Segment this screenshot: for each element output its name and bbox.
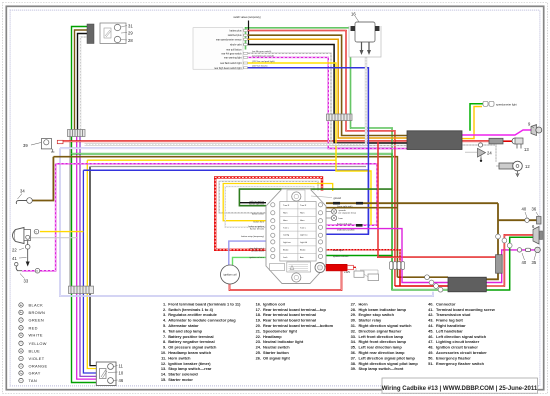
svg-text:Battery negative terminal: Battery negative terminal (168, 339, 215, 344)
svg-text:26.: 26. (256, 355, 261, 360)
svg-text:41: 41 (12, 256, 17, 261)
svg-text:Oil signal light: Oil signal light (263, 355, 291, 360)
svg-text:ORANGE: ORANGE (29, 364, 48, 369)
svg-text:Right rear direction lamp: Right rear direction lamp (359, 350, 406, 355)
svg-text:22.: 22. (256, 334, 261, 339)
svg-text:Tail and stop lamp: Tail and stop lamp (168, 328, 202, 333)
svg-text:Lighting circuit breaker: Lighting circuit breaker (436, 339, 480, 344)
svg-text:Turn L: Turn L (283, 226, 290, 229)
svg-text:TAN: TAN (29, 378, 38, 383)
svg-text:Direction signal flasher: Direction signal flasher (359, 328, 403, 333)
svg-text:Ignition coil: Ignition coil (263, 301, 285, 306)
svg-text:(indicator parallel): (indicator parallel) (337, 229, 355, 232)
svg-text:Alternator stator: Alternator stator (168, 323, 199, 328)
svg-text:Starter solenoid: Starter solenoid (168, 372, 198, 377)
svg-text:10: 10 (119, 371, 124, 376)
svg-text:Stop lamp switch—rear: Stop lamp switch—rear (168, 366, 212, 371)
svg-text:Turn L: Turn L (300, 226, 307, 229)
svg-text:GREEN: GREEN (29, 318, 45, 323)
svg-text:flasher light side: flasher light side (249, 202, 265, 205)
svg-text:switch values (temporary): switch values (temporary) (233, 16, 260, 19)
svg-text:(horn right side): (horn right side) (337, 205, 353, 208)
svg-text:Gy: Gy (20, 373, 23, 375)
svg-text:6.: 6. (163, 328, 166, 333)
svg-text:Starter motor: Starter motor (168, 377, 193, 382)
svg-text:16: 16 (351, 12, 356, 17)
svg-text:Left handlebar: Left handlebar (436, 328, 463, 333)
svg-text:battery plus: battery plus (230, 30, 243, 33)
svg-text:Front terminal board (terminal: Front terminal board (terminals 1 to 11) (168, 301, 241, 306)
svg-text:23.: 23. (256, 339, 261, 344)
svg-text:Right handlebar: Right handlebar (436, 323, 466, 328)
svg-text:(or separate misc): (or separate misc) (339, 212, 357, 215)
svg-text:Turn R: Turn R (283, 204, 290, 207)
svg-text:Accessories circuit breaker: Accessories circuit breaker (436, 350, 487, 355)
svg-text:whole valet: whole valet (230, 44, 242, 47)
svg-text:13: 13 (524, 147, 529, 152)
svg-text:Oil pressure signal switch: Oil pressure signal switch (168, 345, 217, 350)
svg-text:20.: 20. (256, 323, 261, 328)
svg-text:Wiring Cadbike #13 | WWW.DBBP.: Wiring Cadbike #13 | WWW.DBBP.COM | 25-J… (382, 385, 538, 392)
svg-text:40: 40 (522, 207, 527, 212)
svg-text:Rear terminal board terminal—b: Rear terminal board terminal—bottom (263, 323, 334, 328)
svg-text:41.: 41. (428, 307, 433, 312)
svg-text:Rear terminal board terminal: Rear terminal board terminal (263, 318, 316, 323)
svg-text:24.: 24. (256, 345, 261, 350)
svg-text:Config: Config (283, 235, 290, 237)
svg-text:Rear terminal board terminal—t: Rear terminal board terminal—top (263, 307, 327, 312)
svg-text:Battery positive terminal: Battery positive terminal (168, 334, 213, 339)
svg-text:Starter relay: Starter relay (359, 318, 383, 323)
svg-text:14.: 14. (161, 372, 166, 377)
svg-text:rear 4th gear switch: rear 4th gear switch (221, 52, 242, 55)
svg-text:flasher left side: flasher left side (250, 228, 265, 231)
svg-text:ignition coil: ignition coil (224, 273, 237, 277)
svg-text:Stop lamp switch—front: Stop lamp switch—front (359, 366, 404, 371)
svg-text:42.: 42. (428, 312, 433, 317)
svg-text:25.: 25. (256, 350, 261, 355)
svg-text:1.: 1. (163, 301, 166, 306)
svg-text:34.: 34. (351, 339, 356, 344)
svg-text:51.: 51. (428, 361, 433, 366)
svg-text:13.: 13. (161, 366, 166, 371)
svg-text:connect brake: connect brake (251, 250, 265, 253)
svg-text:50.: 50. (428, 355, 433, 360)
svg-text:Switch (terminals 1 to 4): Switch (terminals 1 to 4) (168, 307, 213, 312)
svg-text:horn: horn (339, 217, 344, 220)
svg-text:24: 24 (487, 151, 492, 156)
svg-text:W: W (20, 335, 22, 337)
svg-text:Emergency flasher: Emergency flasher (436, 355, 471, 360)
svg-text:46: 46 (119, 378, 124, 383)
svg-text:Alternator to module connector: Alternator to module connector plug (168, 318, 236, 323)
svg-text:40.: 40. (428, 301, 433, 306)
svg-text:brake light: brake light (333, 249, 343, 252)
svg-text:switched plus: switched plus (228, 34, 243, 37)
svg-text:39.: 39. (351, 366, 356, 371)
svg-text:Frame lug bolt: Frame lug bolt (436, 318, 464, 323)
svg-text:Right front direction lamp: Right front direction lamp (359, 339, 407, 344)
svg-text:36: 36 (532, 207, 537, 212)
svg-text:38.: 38. (351, 361, 356, 366)
svg-text:18.: 18. (256, 312, 261, 317)
svg-text:speedometer light: speedometer light (496, 103, 517, 107)
svg-text:Engine stop switch: Engine stop switch (359, 312, 395, 317)
svg-text:button setup (temporary): button setup (temporary) (241, 235, 264, 238)
svg-text:44.: 44. (428, 323, 433, 328)
svg-text:Left direction signal switch: Left direction signal switch (436, 334, 487, 339)
svg-text:Brake: Brake (283, 249, 289, 252)
svg-text:45.: 45. (428, 328, 433, 333)
svg-text:(no 4th gear switch): (no 4th gear switch) (252, 50, 271, 53)
svg-text:31.: 31. (351, 323, 356, 328)
svg-text:12: 12 (525, 164, 530, 169)
svg-text:BROWN: BROWN (29, 310, 46, 315)
svg-text:rear warning light: rear warning light (224, 56, 242, 59)
svg-text:Terminal board mounting screw: Terminal board mounting screw (436, 307, 496, 312)
svg-text:Neutral indicator light: Neutral indicator light (263, 339, 304, 344)
svg-text:Light sw: Light sw (283, 241, 291, 244)
svg-text:Turn R: Turn R (300, 204, 307, 207)
svg-text:36.: 36. (351, 350, 356, 355)
svg-text:(12V live red park light): (12V live red park light) (252, 60, 275, 63)
svg-text:10.: 10. (161, 350, 166, 355)
svg-text:15.: 15. (161, 377, 166, 382)
svg-text:40: 40 (522, 260, 527, 265)
svg-text:Ignition circuit breaker: Ignition circuit breaker (436, 345, 478, 350)
svg-text:46.: 46. (428, 334, 433, 339)
svg-text:31: 31 (128, 24, 133, 29)
svg-text:47.: 47. (428, 339, 433, 344)
svg-text:35.: 35. (351, 345, 356, 350)
svg-text:ignition coil wire: ignition coil wire (333, 255, 349, 258)
svg-text:YELLOW: YELLOW (29, 341, 47, 346)
svg-text:RED: RED (29, 325, 38, 330)
svg-text:Left front direction lamp: Left front direction lamp (359, 334, 404, 339)
svg-text:Emergency flasher switch: Emergency flasher switch (436, 361, 485, 366)
svg-text:27.: 27. (351, 301, 356, 306)
svg-text:49.: 49. (428, 350, 433, 355)
svg-text:Light Lo: Light Lo (300, 234, 308, 237)
svg-text:17.: 17. (256, 307, 261, 312)
svg-text:Speedometer light: Speedometer light (263, 328, 298, 333)
svg-text:35: 35 (532, 260, 537, 265)
svg-text:Transmission stud: Transmission stud (436, 312, 471, 317)
svg-text:Rear terminal board terminal: Rear terminal board terminal (263, 312, 316, 317)
svg-text:28.: 28. (351, 307, 356, 312)
svg-text:Horn: Horn (359, 301, 369, 306)
svg-text:ignition coil wire: ignition coil wire (249, 256, 265, 259)
svg-text:High beam indicator lamp: High beam indicator lamp (359, 307, 407, 312)
svg-text:29: 29 (128, 31, 133, 36)
svg-text:33.: 33. (351, 334, 356, 339)
svg-text:11.: 11. (161, 355, 166, 360)
svg-text:Neutral switch: Neutral switch (263, 345, 290, 350)
svg-text:11: 11 (119, 364, 124, 369)
svg-text:8.: 8. (163, 339, 166, 344)
svg-text:(12V live beam): (12V live beam) (252, 66, 268, 68)
svg-text:16.: 16. (256, 301, 261, 306)
svg-text:(at oil pressure switch): (at oil pressure switch) (252, 54, 274, 57)
svg-text:Light Hi: Light Hi (300, 241, 308, 244)
svg-text:32.: 32. (351, 328, 356, 333)
svg-text:Headlamp beam switch: Headlamp beam switch (168, 350, 212, 355)
svg-text:rear high beam switch light: rear high beam switch light (214, 67, 242, 70)
svg-text:Horn switch: Horn switch (168, 355, 191, 360)
svg-text:Bn: Bn (20, 312, 22, 314)
svg-text:rear pull button: rear pull button (226, 49, 242, 52)
svg-text:rear speedometer sensor: rear speedometer sensor (216, 38, 242, 41)
svg-text:19.: 19. (256, 318, 261, 323)
svg-text:Left rear direction lamp: Left rear direction lamp (359, 345, 403, 350)
svg-text:Right direction signal pilot l: Right direction signal pilot lamp (359, 361, 419, 366)
svg-text:button center: button center (252, 213, 264, 216)
svg-text:39: 39 (23, 143, 28, 148)
svg-text:rear flash switch light: rear flash switch light (220, 62, 242, 65)
svg-text:33: 33 (24, 279, 29, 284)
svg-text:28: 28 (128, 38, 133, 43)
svg-text:Regulator-rectifier module: Regulator-rectifier module (168, 312, 217, 317)
svg-text:22: 22 (12, 248, 17, 253)
svg-text:BLUE: BLUE (29, 349, 41, 354)
svg-text:Starter button: Starter button (263, 350, 289, 355)
svg-text:flasher left side: flasher left side (337, 223, 352, 226)
svg-text:Brake: Brake (300, 249, 306, 252)
svg-text:43.: 43. (428, 318, 433, 323)
svg-text:37.: 37. (351, 355, 356, 360)
svg-text:3.: 3. (163, 312, 166, 317)
svg-text:GRAY: GRAY (29, 371, 41, 376)
svg-text:VIOLET: VIOLET (29, 356, 45, 361)
svg-text:30.: 30. (351, 318, 356, 323)
svg-text:Connector: Connector (436, 301, 456, 306)
svg-text:button horn: button horn (253, 220, 264, 223)
svg-text:Left direction signal pilot la: Left direction signal pilot lamp (359, 355, 416, 360)
svg-text:5.: 5. (163, 323, 166, 328)
svg-text:34: 34 (20, 189, 25, 194)
svg-text:12.: 12. (161, 361, 166, 366)
svg-text:4.: 4. (163, 318, 166, 323)
svg-text:ground: ground (334, 197, 342, 200)
svg-text:WHITE: WHITE (29, 333, 43, 338)
svg-text:7.: 7. (163, 334, 166, 339)
svg-text:2.: 2. (163, 307, 166, 312)
svg-text:Bk: Bk (20, 305, 22, 307)
svg-text:48.: 48. (428, 345, 433, 350)
svg-text:BLACK: BLACK (29, 303, 44, 308)
svg-text:9.: 9. (163, 345, 166, 350)
svg-text:Headlamp: Headlamp (263, 334, 282, 339)
svg-text:Ignition breaker (timer): Ignition breaker (timer) (168, 361, 211, 366)
svg-text:21.: 21. (256, 328, 261, 333)
svg-text:Right direction signal switch: Right direction signal switch (359, 323, 413, 328)
svg-text:29.: 29. (351, 312, 356, 317)
